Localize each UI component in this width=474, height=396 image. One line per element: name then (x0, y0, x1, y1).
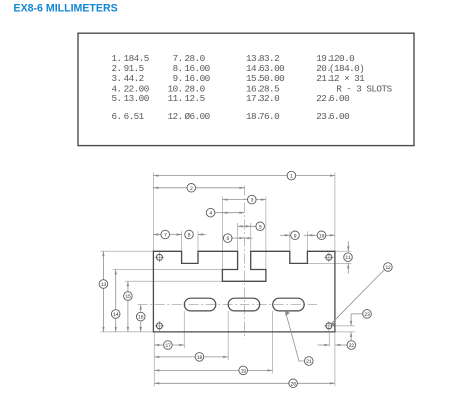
svg-text:18: 18 (197, 355, 203, 361)
svg-text:23: 23 (364, 312, 370, 318)
svg-text:4: 4 (209, 211, 212, 217)
svg-text:14: 14 (113, 312, 119, 318)
svg-text:16: 16 (138, 315, 144, 321)
svg-text:12.5: 12.5 (185, 93, 205, 104)
svg-text:13: 13 (101, 282, 107, 288)
svg-text:76.0: 76.0 (259, 111, 279, 122)
svg-text:5: 5 (259, 224, 262, 230)
svg-text:2: 2 (190, 186, 193, 192)
svg-text:6.00: 6.00 (329, 111, 349, 122)
svg-text:20: 20 (290, 381, 296, 387)
svg-text:EX8-6 MILLIMETERS: EX8-6 MILLIMETERS (14, 3, 118, 15)
svg-text:12.: 12. (168, 111, 183, 122)
svg-text:17: 17 (165, 343, 171, 349)
svg-text:9: 9 (294, 233, 297, 239)
svg-text:6.51: 6.51 (124, 111, 145, 122)
svg-text:6.00: 6.00 (329, 93, 349, 104)
svg-text:6: 6 (226, 236, 229, 242)
svg-text:6.: 6. (112, 111, 122, 122)
svg-text:22: 22 (349, 343, 355, 349)
svg-text:1: 1 (290, 174, 293, 180)
svg-text:32.0: 32.0 (259, 93, 279, 104)
svg-text:13.00: 13.00 (124, 93, 149, 104)
svg-text:11.: 11. (168, 93, 183, 104)
svg-text:15: 15 (125, 294, 131, 300)
svg-text:3: 3 (250, 198, 253, 204)
svg-text:5.: 5. (112, 93, 122, 104)
svg-text:19: 19 (240, 368, 246, 374)
svg-text:12: 12 (385, 265, 391, 271)
svg-text:11: 11 (345, 255, 351, 261)
svg-text:8: 8 (188, 233, 191, 239)
svg-text:21: 21 (306, 359, 312, 365)
svg-text:Ø6.00: Ø6.00 (185, 111, 210, 122)
svg-text:7: 7 (164, 233, 167, 239)
svg-text:10: 10 (319, 233, 325, 239)
